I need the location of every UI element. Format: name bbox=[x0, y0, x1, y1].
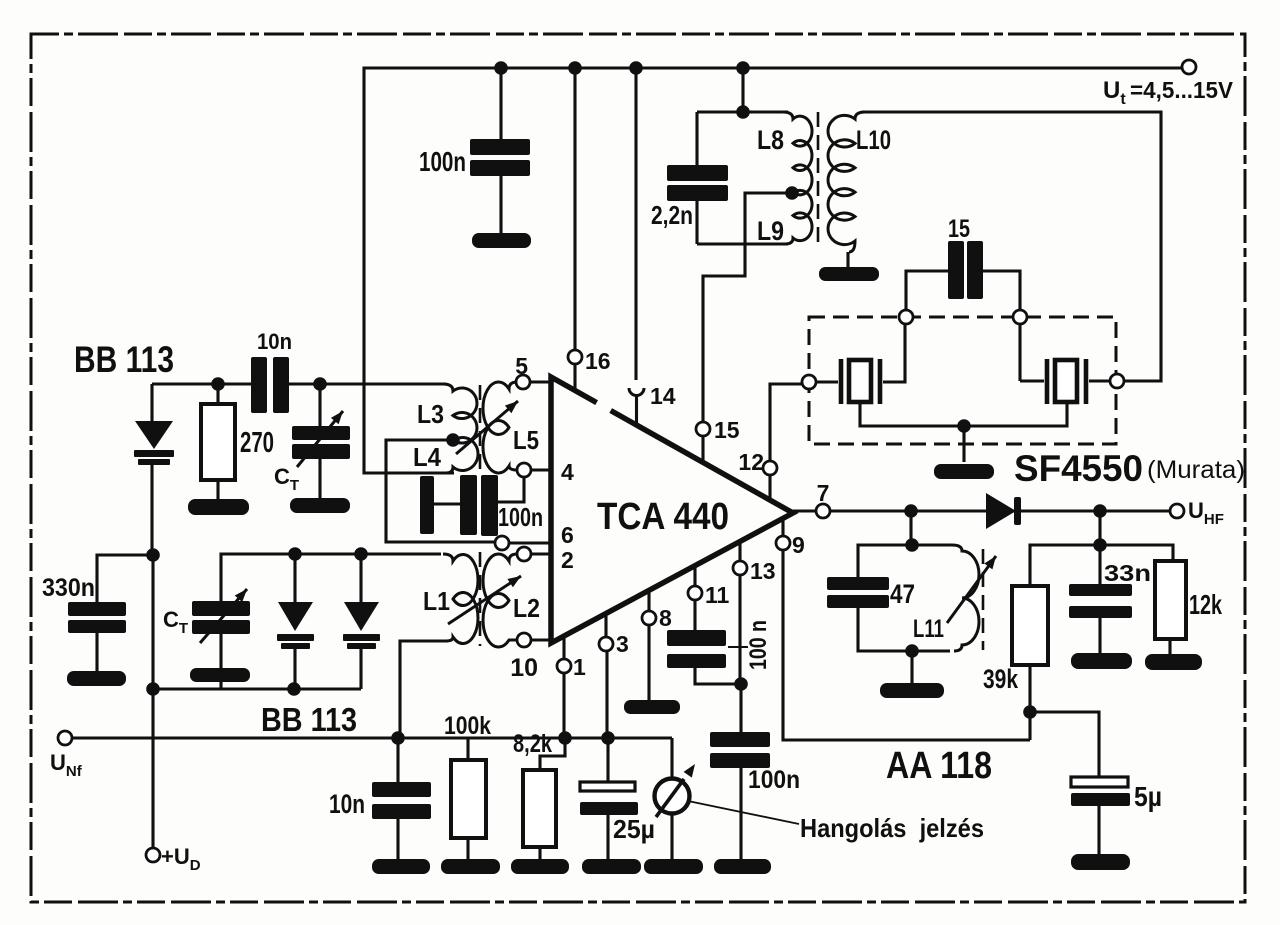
svg-text:13: 13 bbox=[750, 558, 776, 584]
svg-text:100n: 100n bbox=[748, 766, 800, 794]
svg-text:15: 15 bbox=[714, 417, 740, 443]
svg-text:AA 118: AA 118 bbox=[886, 745, 992, 787]
svg-text:9: 9 bbox=[792, 532, 805, 558]
svg-text:8,2k: 8,2k bbox=[513, 730, 552, 758]
svg-text:14: 14 bbox=[650, 383, 676, 409]
svg-text:L8: L8 bbox=[757, 125, 784, 155]
svg-text:10n: 10n bbox=[329, 789, 365, 819]
svg-text:SF4550: SF4550 bbox=[1014, 448, 1143, 489]
svg-text:5µ: 5µ bbox=[1134, 781, 1162, 812]
svg-text:L1: L1 bbox=[423, 586, 450, 616]
svg-text:BB 113: BB 113 bbox=[261, 701, 357, 738]
svg-text:6: 6 bbox=[561, 522, 574, 548]
svg-text:3: 3 bbox=[616, 631, 629, 657]
svg-text:L2: L2 bbox=[513, 593, 540, 623]
svg-text:L3: L3 bbox=[417, 399, 444, 429]
svg-text:L10: L10 bbox=[856, 125, 891, 155]
svg-text:10n: 10n bbox=[257, 329, 292, 354]
svg-text:100k: 100k bbox=[444, 712, 491, 740]
svg-text:47: 47 bbox=[890, 579, 915, 609]
svg-text:16: 16 bbox=[585, 348, 611, 374]
svg-text:L4: L4 bbox=[413, 442, 441, 472]
svg-text:TCA 440: TCA 440 bbox=[597, 496, 729, 538]
svg-text:330n: 330n bbox=[42, 574, 95, 602]
svg-text:1: 1 bbox=[573, 654, 586, 680]
svg-text:7: 7 bbox=[817, 480, 830, 506]
svg-text:2,2n: 2,2n bbox=[651, 200, 693, 230]
svg-text:(Murata): (Murata) bbox=[1147, 456, 1245, 484]
svg-text:L9: L9 bbox=[757, 216, 784, 246]
svg-text:Hangolás jelzés: Hangolás jelzés bbox=[800, 813, 984, 843]
svg-text:2: 2 bbox=[561, 547, 574, 573]
svg-text:11: 11 bbox=[705, 582, 730, 608]
svg-text:12k: 12k bbox=[1189, 589, 1222, 620]
svg-text:25µ: 25µ bbox=[613, 814, 655, 844]
svg-text:270: 270 bbox=[240, 427, 274, 459]
svg-text:5: 5 bbox=[515, 353, 528, 379]
svg-text:100n: 100n bbox=[498, 502, 543, 532]
svg-text:100n: 100n bbox=[419, 146, 466, 177]
svg-text:33n: 33n bbox=[1104, 560, 1151, 586]
svg-text:12: 12 bbox=[738, 449, 764, 475]
svg-text:8: 8 bbox=[659, 605, 672, 631]
svg-text:10: 10 bbox=[510, 654, 538, 682]
svg-text:39k: 39k bbox=[983, 664, 1019, 694]
svg-text:L11: L11 bbox=[913, 615, 944, 643]
svg-text:BB 113: BB 113 bbox=[74, 339, 174, 380]
svg-text:15: 15 bbox=[948, 215, 970, 243]
svg-text:4: 4 bbox=[561, 459, 574, 485]
svg-text:L5: L5 bbox=[513, 425, 539, 455]
svg-text:100 n: 100 n bbox=[745, 620, 772, 670]
svg-text:=4,5...15V: =4,5...15V bbox=[1130, 77, 1234, 103]
